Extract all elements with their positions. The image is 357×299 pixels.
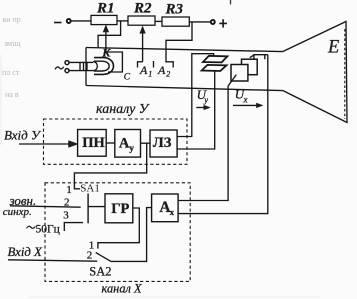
- svg-text:ПН: ПН: [82, 135, 105, 151]
- svg-text:ви пр: ви пр: [2, 15, 20, 24]
- svg-text:C: C: [124, 73, 131, 83]
- svg-text:Вхід У: Вхід У: [4, 127, 42, 142]
- svg-text:50Гц: 50Гц: [36, 224, 60, 236]
- svg-text:SA2: SA2: [89, 264, 111, 278]
- svg-text:у: у: [203, 95, 208, 105]
- svg-text:1: 1: [66, 184, 72, 196]
- svg-text:2: 2: [166, 69, 170, 78]
- svg-text:ЛЗ: ЛЗ: [153, 135, 172, 151]
- svg-text:синхр.: синхр.: [3, 206, 32, 218]
- svg-text:2: 2: [64, 197, 70, 209]
- svg-text:на в: на в: [5, 90, 19, 99]
- svg-text:2: 2: [87, 250, 93, 262]
- svg-text:х: х: [243, 94, 248, 104]
- svg-text:А: А: [119, 135, 130, 151]
- svg-text:A: A: [157, 63, 166, 77]
- svg-text:3: 3: [63, 210, 69, 222]
- svg-text:1: 1: [148, 69, 152, 78]
- svg-text:канал Х: канал Х: [102, 282, 143, 296]
- svg-text:R2: R2: [133, 0, 152, 16]
- svg-text:A: A: [139, 63, 148, 77]
- svg-text:зміщ: зміщ: [4, 39, 21, 48]
- svg-text:SA1: SA1: [80, 182, 100, 194]
- svg-text:K: K: [101, 46, 111, 60]
- svg-text:R1: R1: [96, 0, 115, 16]
- svg-text:ГР: ГР: [111, 201, 129, 217]
- svg-text:E: E: [327, 37, 339, 57]
- svg-text:у: у: [129, 144, 134, 154]
- svg-text:Вхід Х: Вхід Х: [8, 245, 44, 259]
- svg-text:х: х: [170, 207, 175, 217]
- svg-text:пл ст: пл ст: [2, 68, 20, 77]
- svg-text:R3: R3: [165, 2, 184, 18]
- svg-text:каналу У: каналу У: [96, 102, 150, 117]
